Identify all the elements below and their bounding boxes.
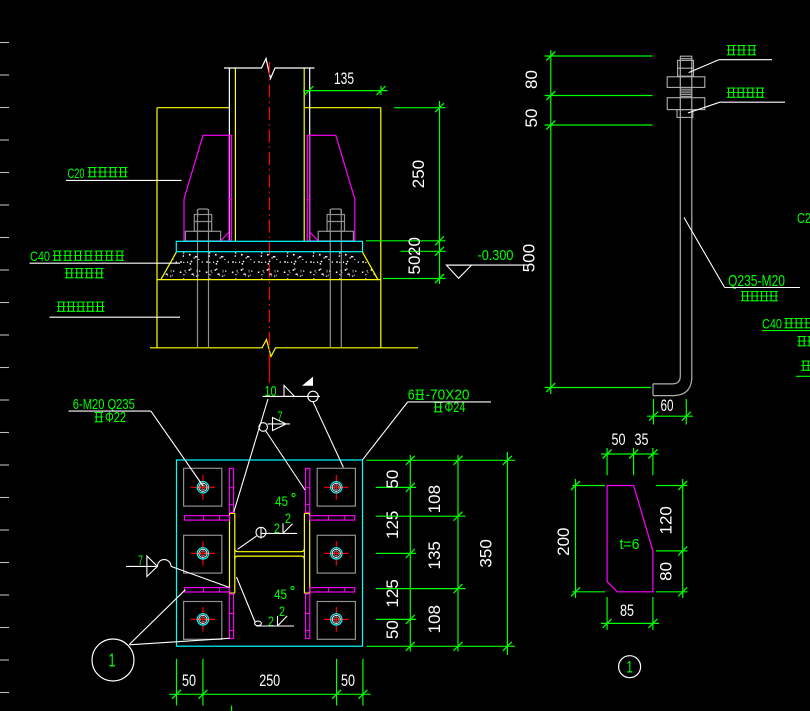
right edge cut-off label second pour [798, 337, 810, 346]
level mark -0.300 [446, 247, 529, 278]
svg-text:108: 108 [425, 605, 444, 633]
stiffener trapezoid right (section) [307, 135, 355, 241]
label double nut [689, 46, 772, 73]
adjusting nut (bolt detail) [677, 110, 693, 118]
svg-text:60: 60 [661, 396, 674, 415]
svg-text:C2: C2 [797, 210, 810, 227]
right dimension chain 108/135/108 (plan) [376, 455, 466, 652]
stiffener plate strip vertical lower-right (plan) [306, 594, 310, 639]
anchor washer plate top-left (plan) [184, 468, 222, 506]
svg-text:1: 1 [109, 651, 116, 671]
detail callout circle 1 (plan) [92, 590, 230, 681]
stiffener plate strips horizontal lower-left (plan) [185, 588, 230, 592]
svg-text:2: 2 [279, 603, 285, 619]
svg-text:200: 200 [554, 528, 573, 556]
svg-text:108: 108 [425, 485, 444, 513]
dimension chain 80/50/500 (bolt detail left) [520, 50, 653, 394]
left dimension 200 (detail) [554, 479, 605, 598]
svg-text:t=6: t=6 [620, 536, 640, 553]
label Q235-M20 anchor bolt [684, 218, 800, 301]
svg-text:50: 50 [612, 430, 626, 449]
anchor bolt bottom-left (plan): red centermark, hole circle, bolt circle [191, 607, 216, 632]
svg-text:50: 50 [182, 671, 196, 690]
anchor bolt top-left (plan): red centermark, hole circle, bolt circle [191, 475, 216, 500]
section mark 10 with flag (plan top) [234, 356, 344, 512]
base plate (plan, cyan) [177, 460, 363, 646]
dimension 60 (bolt hook) [647, 396, 693, 425]
svg-text:135: 135 [425, 541, 444, 569]
svg-text:7: 7 [138, 552, 143, 568]
svg-text:35: 35 [635, 430, 649, 449]
anchor bolt mid-right (plan): red centermark, hole circle, bolt circle [324, 541, 349, 566]
stiffener plate strips horizontal lower-right (plan) [310, 588, 355, 592]
svg-text:6: 6 [408, 387, 415, 404]
stiffener plate outline (detail) [607, 486, 653, 592]
anchor washer plate top-right (plan) [317, 468, 355, 506]
base plate (section, cyan) [176, 241, 362, 251]
anchor bolt mid-left (plan): red centermark, hole circle, bolt circle [191, 541, 216, 566]
anchor bolt rod (detail) [653, 56, 692, 395]
anchor bolt bottom-right (plan): red centermark, hole circle, bolt circle [324, 607, 349, 632]
label concrete short column [50, 302, 181, 317]
svg-text:50: 50 [405, 256, 424, 275]
stiffener plate strip vertical upper-left (plan) [229, 468, 233, 512]
svg-text:45: 45 [274, 586, 287, 602]
column top break line with zigzag [224, 59, 315, 79]
svg-text:50: 50 [383, 620, 402, 639]
weld mark 7 upper-left (plan) [259, 408, 305, 490]
svg-text:10: 10 [265, 383, 277, 400]
pedestal concrete outline [157, 108, 381, 348]
stiffener trapezoid left (section) [184, 135, 232, 241]
second-pour grout hatch band [157, 252, 381, 279]
right dimension 350 (plan) [477, 452, 512, 655]
svg-text:85: 85 [620, 601, 634, 620]
right edge cut-off label C2.. [797, 210, 810, 227]
svg-text:120: 120 [657, 506, 676, 534]
bottom dimension 85 (detail) [601, 597, 659, 630]
right dimension 120/80 (detail) [656, 479, 687, 598]
svg-text:80: 80 [657, 562, 676, 581]
svg-text:-0.300: -0.300 [478, 247, 514, 264]
svg-text:250: 250 [409, 160, 428, 188]
detail number circle 1 [619, 656, 641, 678]
anchor washer plate bottom-left (plan) [184, 602, 222, 640]
dimension chain 250/20/50 (section right) [366, 101, 446, 284]
right edge cut-off label C40 expansive [762, 316, 810, 332]
stiffener plate strips horizontal upper-right (plan) [310, 516, 355, 520]
column H-section (plan, yellow) [230, 513, 310, 593]
svg-text:45: 45 [275, 493, 288, 509]
double nut (bolt detail) [678, 60, 694, 76]
top dimension 50/35 (detail) [601, 430, 659, 475]
dimension 135 (top) [303, 69, 388, 95]
svg-text:C40: C40 [762, 316, 782, 332]
threaded section (bolt detail) [681, 89, 692, 96]
anchor bolt right (section, with nut and washer plate) [318, 209, 353, 348]
bottom dimension chain 50/250/50 (plan) [169, 659, 371, 711]
svg-text:350: 350 [477, 539, 496, 567]
svg-text:1: 1 [626, 658, 633, 677]
svg-text:50: 50 [383, 470, 402, 489]
anchor washer plate mid-left (plan) [184, 535, 222, 573]
label adjusting nut [688, 88, 785, 113]
anchor bolt left (section, with nut and washer plate) [185, 209, 220, 348]
svg-text:50: 50 [522, 109, 541, 128]
column flange inner lines [235, 68, 304, 241]
svg-text:135: 135 [334, 69, 354, 88]
anchor washer plate bottom-right (plan) [317, 602, 355, 640]
weld symbol 45deg/2/2 lower (plan) [237, 577, 295, 629]
stiffener plate strips horizontal upper-left (plan) [185, 516, 230, 520]
svg-text:C20: C20 [68, 165, 85, 181]
svg-text:C40: C40 [30, 248, 50, 264]
svg-text:125: 125 [383, 579, 402, 607]
svg-text:2: 2 [268, 613, 274, 629]
left edge dimension tick marks (cut-off drawing) [0, 43, 9, 693]
right dimension chain 50/125/125/50 (plan) [366, 455, 515, 652]
anchor bolt top-right (plan): red centermark, hole circle, bolt circle [324, 475, 349, 500]
weld mark 7 mid-left (plan) [126, 552, 230, 588]
svg-text:80: 80 [522, 70, 541, 89]
label C20 plain concrete encasement [66, 165, 182, 181]
label 6 pcs -70X20 holes dia24 [363, 387, 492, 460]
label C40 expansive fine aggregate concrete [30, 248, 181, 264]
svg-text:50: 50 [341, 671, 355, 690]
washer lower (bolt detail) [667, 98, 705, 110]
svg-text:125: 125 [383, 511, 402, 539]
washer upper (bolt detail) [667, 77, 705, 88]
right edge cut-off underline [796, 361, 810, 376]
svg-text:2: 2 [285, 510, 291, 526]
label second pour text [65, 269, 104, 278]
svg-text:250: 250 [259, 671, 280, 690]
anchor washer plate mid-right (plan) [317, 535, 355, 573]
label 6-M20 Q235 holes dia22 [69, 396, 204, 487]
stiffener plate strip vertical lower-left (plan) [229, 594, 233, 639]
svg-text:20: 20 [405, 237, 424, 256]
stiffener plate strip vertical upper-right (plan) [306, 468, 310, 512]
column flange outer lines (steel column) [229, 68, 309, 241]
column red centerline [268, 62, 270, 369]
svg-text:500: 500 [520, 244, 539, 272]
pedestal bottom break line with zigzag [150, 340, 418, 357]
weld symbol 45deg/2/2 upper (plan) [238, 493, 298, 549]
